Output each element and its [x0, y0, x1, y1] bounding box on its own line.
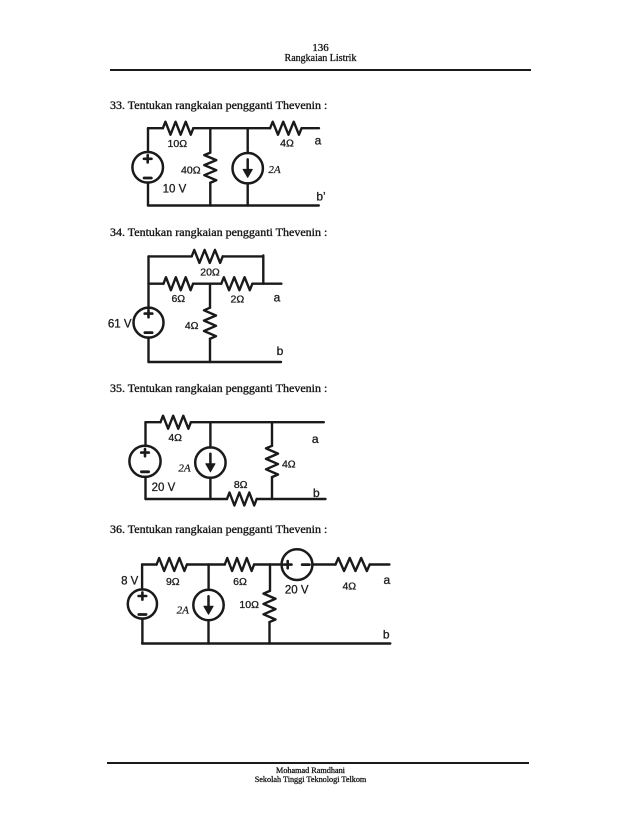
svg-text:2A: 2A [177, 604, 190, 616]
svg-text:2A: 2A [178, 462, 191, 474]
svg-text:4Ω: 4Ω [282, 459, 296, 471]
svg-text:10Ω: 10Ω [168, 138, 188, 150]
svg-text:a: a [312, 432, 319, 446]
svg-text:2Ω: 2Ω [231, 294, 245, 306]
svg-text:4Ω: 4Ω [280, 138, 294, 150]
svg-text:4Ω: 4Ω [185, 320, 199, 332]
svg-text:b’: b’ [316, 190, 325, 204]
svg-text:10 V: 10 V [163, 184, 187, 196]
svg-text:4Ω: 4Ω [342, 581, 356, 593]
svg-text:2A: 2A [268, 164, 281, 176]
svg-text:61 V: 61 V [108, 319, 132, 331]
svg-text:a: a [315, 134, 322, 148]
svg-text:40Ω: 40Ω [181, 164, 201, 176]
svg-text:b: b [313, 486, 320, 500]
svg-text:8 V: 8 V [121, 576, 139, 588]
svg-text:9Ω: 9Ω [166, 576, 180, 588]
svg-text:20 V: 20 V [152, 482, 176, 494]
svg-text:a: a [384, 573, 391, 587]
svg-text:4Ω: 4Ω [168, 432, 182, 444]
svg-text:a: a [274, 290, 281, 304]
svg-text:6Ω: 6Ω [171, 293, 185, 305]
svg-text:6Ω: 6Ω [233, 576, 247, 588]
svg-text:20 V: 20 V [285, 585, 309, 597]
svg-text:20Ω: 20Ω [200, 266, 220, 278]
svg-text:b: b [277, 344, 284, 358]
svg-text:10Ω: 10Ω [239, 599, 259, 611]
svg-text:b: b [383, 628, 390, 642]
svg-text:8Ω: 8Ω [234, 479, 248, 491]
